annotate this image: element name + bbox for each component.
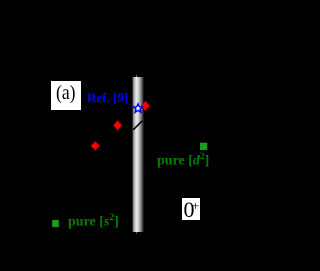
red diamond 3 [91,142,100,151]
gray level bar top nub [136,75,138,77]
break line across bar [133,121,142,130]
red diamond 2 [114,121,122,130]
panel label (a) box [51,81,81,110]
red diamond 1 [141,101,149,110]
green square d2 [200,143,207,150]
pure [s2] label [68,213,119,231]
green square s2 [52,220,59,227]
Ref. [9] label [87,90,128,106]
gray level bar [132,77,144,232]
markers svg [0,0,209,271]
gray level bar bottom nub [136,232,138,235]
0+ box [182,198,200,220]
blue open star [133,104,142,113]
pure [d2] label [157,152,209,170]
